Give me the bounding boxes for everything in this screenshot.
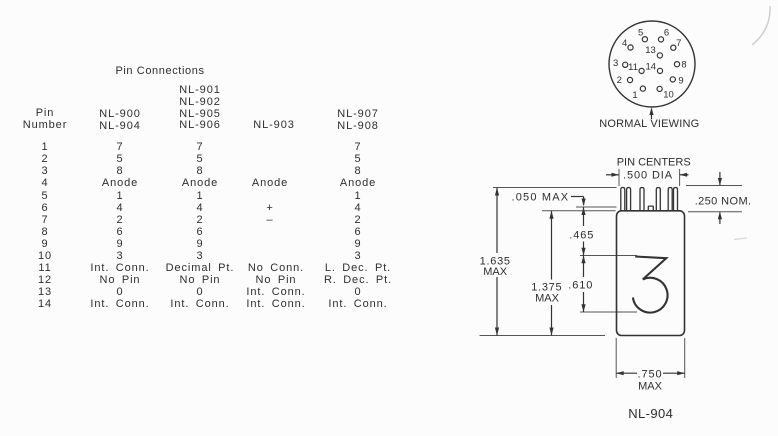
arrowhead 1.375 bottom bbox=[549, 328, 553, 336]
arrowhead .750 left bbox=[616, 371, 624, 375]
pin 4 circle bbox=[628, 45, 633, 50]
arrowhead .465 bottom bbox=[581, 248, 585, 256]
table data column: NL-903 values (upper group) bbox=[220, 141, 320, 226]
tube body outline bbox=[617, 211, 685, 336]
pin 7 circle bbox=[671, 45, 676, 50]
svg-text:MAX: MAX bbox=[483, 266, 508, 278]
pin 6 circle bbox=[658, 37, 663, 42]
pin 14 circle bbox=[657, 68, 662, 73]
arrowhead pin centers left bbox=[612, 173, 620, 177]
table data column: NL-900/NL-904 values bbox=[75, 141, 165, 310]
svg-text:.500 DIA: .500 DIA bbox=[623, 169, 673, 181]
tube pin 2 bbox=[627, 188, 631, 211]
table header column: NL-907 / NL-908 bbox=[303, 109, 413, 132]
arrowhead 1.375 top bbox=[549, 211, 553, 219]
dimension line 1.375 MAX bbox=[551, 211, 553, 280]
svg-text:.610: .610 bbox=[568, 280, 593, 292]
table data column: pin numbers 1-14 bbox=[15, 141, 75, 310]
table header column: NL-900 / NL-904 bbox=[75, 109, 165, 132]
extension line: .750 right bbox=[684, 338, 686, 378]
svg-text:PIN CENTERS: PIN CENTERS bbox=[617, 156, 691, 168]
pin 10 circle bbox=[657, 86, 662, 91]
pin 9 circle bbox=[670, 77, 675, 82]
dimension line pin centers left bbox=[606, 174, 619, 176]
extension tick: pin centers right bbox=[679, 169, 681, 186]
table data column: NL-903 values (lower group) bbox=[226, 262, 326, 310]
extension line: .750 left bbox=[615, 338, 617, 378]
pin 13 circle bbox=[657, 53, 662, 58]
scan artifact: faint dash right middle bbox=[734, 238, 747, 240]
extension line: body bottom plane bbox=[480, 335, 606, 337]
normal viewing pointer arrow bbox=[651, 109, 653, 120]
arrowhead .465 top bbox=[581, 207, 585, 215]
svg-text:8: 8 bbox=[681, 60, 686, 71]
table header column: NL-903 bbox=[224, 120, 324, 132]
svg-text:.465: .465 bbox=[569, 229, 594, 241]
extension line: .250 bottom bbox=[688, 211, 742, 213]
dimension line .750 left bbox=[617, 372, 638, 374]
arrowhead 1.635 bottom bbox=[495, 328, 499, 336]
leader .050 MAX bbox=[571, 196, 584, 198]
arrowhead .610 top bbox=[581, 256, 585, 264]
tube pin 4 bbox=[656, 188, 660, 211]
svg-text:4: 4 bbox=[622, 38, 627, 49]
pin 11 circle bbox=[639, 68, 644, 73]
dimension line .750 right bbox=[663, 372, 685, 374]
svg-text:.050 MAX: .050 MAX bbox=[511, 191, 569, 203]
dimension line 1.635 MAX bbox=[496, 188, 498, 254]
svg-text:14: 14 bbox=[646, 62, 657, 73]
caption: NORMAL VIEWING bbox=[589, 118, 709, 130]
arrowhead .610 bottom bbox=[581, 304, 585, 312]
svg-text:.750: .750 bbox=[637, 368, 662, 380]
pin 1 circle bbox=[640, 86, 645, 91]
dimension line .610 bbox=[583, 256, 585, 278]
extension line: digit bottom bbox=[580, 311, 637, 313]
arrowhead pin centers right bbox=[680, 173, 688, 177]
tube pin 3 bbox=[640, 188, 644, 211]
tube pin 5 bbox=[668, 188, 672, 211]
pin 5 circle bbox=[642, 37, 647, 42]
svg-text:9: 9 bbox=[678, 76, 683, 87]
tube pin 1 bbox=[621, 188, 625, 211]
scan artifact: faint arc top right bbox=[752, 6, 770, 45]
extension line: exhaust tip plane bbox=[576, 206, 617, 208]
extension tick: pin centers left bbox=[618, 169, 620, 186]
svg-text:MAX: MAX bbox=[638, 381, 663, 393]
svg-text:1: 1 bbox=[632, 90, 637, 101]
extension line: .250 top bbox=[686, 185, 742, 187]
extension line: body top plane bbox=[542, 210, 616, 212]
dimension line pin centers right bbox=[680, 174, 689, 176]
svg-text:10: 10 bbox=[663, 90, 674, 101]
svg-text:3: 3 bbox=[613, 58, 618, 69]
exhaust tip bbox=[648, 206, 653, 211]
svg-text:7: 7 bbox=[676, 38, 681, 49]
arrowhead .250 bottom bbox=[718, 212, 722, 220]
table header column: NL-901 / NL-902 / NL-905 / NL-906 bbox=[145, 85, 255, 132]
table header column: Pin Number bbox=[15, 108, 75, 131]
extension line: pin top plane bbox=[493, 187, 617, 189]
label: NL-904 bbox=[591, 408, 711, 420]
table data column: NL-907/NL-908 values bbox=[303, 141, 413, 310]
arrowhead .050 leader bbox=[582, 199, 586, 207]
arrowhead .750 right bbox=[677, 371, 685, 375]
arrowhead .250 top bbox=[718, 178, 722, 186]
arrowhead 1.635 top bbox=[495, 188, 499, 196]
svg-text:5: 5 bbox=[638, 27, 643, 38]
svg-text:13: 13 bbox=[645, 45, 656, 56]
dimension line .250 bottom bbox=[719, 212, 721, 224]
table data column: NL-901/902/905/906 values bbox=[145, 141, 255, 310]
pin layout: tube face outline circle bbox=[609, 21, 695, 107]
svg-text:11: 11 bbox=[628, 62, 638, 73]
table title: Pin Connections bbox=[85, 65, 235, 77]
tube pin 6 bbox=[674, 188, 678, 211]
pin 8 circle bbox=[674, 62, 679, 67]
pin 2 circle bbox=[627, 77, 632, 82]
dimension line .465 bbox=[583, 207, 585, 226]
extension line: digit top bbox=[580, 255, 637, 257]
dimension line .250 top bbox=[719, 172, 721, 185]
pin 3 circle bbox=[623, 62, 628, 67]
svg-text:6: 6 bbox=[664, 28, 669, 39]
svg-text:MAX: MAX bbox=[535, 293, 560, 305]
digit 3 on tube face bbox=[633, 257, 668, 313]
svg-text:2: 2 bbox=[617, 75, 622, 86]
svg-text:.250 NOM.: .250 NOM. bbox=[695, 195, 752, 207]
